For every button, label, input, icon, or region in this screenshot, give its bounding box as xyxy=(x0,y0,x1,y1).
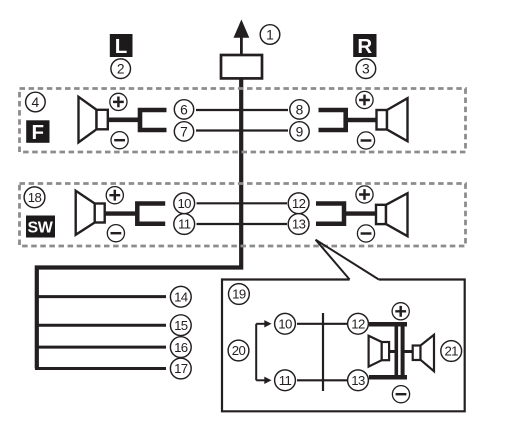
plus sw-left xyxy=(106,187,123,204)
node 1 xyxy=(260,25,280,45)
wire lead 16 xyxy=(35,346,166,349)
svg-text:7: 7 xyxy=(180,124,188,139)
node 15 xyxy=(170,315,191,336)
label R xyxy=(353,34,376,58)
node 7 xyxy=(174,122,193,141)
speaker subwoofer-left xyxy=(76,191,105,235)
plus sw-right xyxy=(356,186,373,203)
detail box xyxy=(222,280,465,412)
arrow bracket to 10 and 11 xyxy=(256,320,271,384)
node 10 xyxy=(174,193,195,214)
node 18 xyxy=(24,187,45,208)
wire 6 to 8 xyxy=(196,109,288,111)
speaker detail-left xyxy=(369,336,395,367)
node 11 detail xyxy=(275,370,296,391)
minus front-left xyxy=(111,132,128,149)
svg-text:18: 18 xyxy=(28,190,42,205)
wire 10-12 detail xyxy=(297,323,347,325)
wire lead 15 xyxy=(35,324,166,327)
node 17 xyxy=(170,358,191,379)
svg-text:12: 12 xyxy=(351,317,365,332)
svg-text:14: 14 xyxy=(174,290,188,305)
svg-text:11: 11 xyxy=(279,373,292,388)
wire sw-right speaker xyxy=(344,211,377,215)
wire fork front-left xyxy=(140,110,167,130)
svg-text:9: 9 xyxy=(296,124,304,139)
wire plus rail xyxy=(369,322,407,327)
wire 7 to 9 xyxy=(196,129,288,131)
svg-text:SW: SW xyxy=(28,220,54,237)
node 12 xyxy=(288,193,309,214)
node 19 xyxy=(229,284,250,305)
bar right xyxy=(401,324,405,379)
node 13 detail xyxy=(348,370,369,391)
node 21 xyxy=(441,341,462,362)
svg-text:10: 10 xyxy=(177,196,191,211)
svg-text:3: 3 xyxy=(362,62,370,77)
speaker front-right xyxy=(377,98,408,141)
dashed box SW xyxy=(20,184,466,247)
node 6 xyxy=(174,100,193,119)
svg-text:12: 12 xyxy=(292,196,306,211)
wire minus rail xyxy=(369,375,407,380)
svg-text:F: F xyxy=(32,121,45,144)
wire sw-left speaker xyxy=(105,211,138,215)
svg-text:6: 6 xyxy=(180,102,188,117)
node 9 xyxy=(290,122,309,141)
node 16 xyxy=(170,337,191,358)
callout lines xyxy=(316,240,379,280)
svg-text:21: 21 xyxy=(444,344,458,359)
svg-text:13: 13 xyxy=(351,373,365,388)
wire lead 14 xyxy=(35,295,166,298)
main harness wire xyxy=(37,78,241,369)
label SW xyxy=(26,216,55,238)
node 10 detail xyxy=(275,313,296,334)
wire fork sw-right xyxy=(316,204,344,224)
svg-text:2: 2 xyxy=(117,62,125,77)
antenna arrow xyxy=(234,20,250,56)
wire fork front-right xyxy=(319,110,346,130)
dashed box F xyxy=(20,89,466,153)
minus sw-right xyxy=(357,225,374,242)
wire 10 to 12 xyxy=(197,202,288,204)
label L xyxy=(110,34,133,58)
node 3 xyxy=(356,59,376,79)
svg-text:R: R xyxy=(357,35,372,58)
node 2 xyxy=(111,59,131,79)
node 8 xyxy=(290,100,309,119)
svg-text:13: 13 xyxy=(292,217,306,232)
wire fork sw-left xyxy=(137,204,165,224)
plus front-left xyxy=(110,93,127,110)
svg-text:16: 16 xyxy=(174,340,188,355)
speaker detail-right xyxy=(404,335,434,371)
node 4 xyxy=(26,92,46,112)
svg-text:19: 19 xyxy=(232,287,246,302)
speaker front-left xyxy=(79,97,108,143)
node 13 xyxy=(288,214,309,235)
junction crossbar xyxy=(322,313,324,391)
minus front-right xyxy=(357,132,374,149)
node 12 detail xyxy=(348,313,369,334)
svg-text:10: 10 xyxy=(278,317,292,332)
svg-text:L: L xyxy=(115,35,128,58)
svg-text:1: 1 xyxy=(266,27,274,42)
node 11 xyxy=(174,214,195,235)
plus detail xyxy=(392,303,409,320)
wire lead 17 xyxy=(35,367,166,370)
minus sw-left xyxy=(107,225,124,242)
wire 11-13 detail xyxy=(297,379,347,381)
svg-text:20: 20 xyxy=(232,343,246,358)
label F xyxy=(26,120,49,144)
bar left xyxy=(394,324,398,379)
svg-text:15: 15 xyxy=(174,318,188,333)
svg-text:11: 11 xyxy=(178,217,191,232)
node 14 xyxy=(170,286,191,307)
wire 11 to 13 xyxy=(197,223,288,225)
node 20 xyxy=(228,340,249,361)
svg-text:8: 8 xyxy=(296,102,304,117)
svg-text:17: 17 xyxy=(174,361,188,376)
wire front-right speaker xyxy=(346,118,377,123)
plus front-right xyxy=(356,91,373,108)
svg-text:4: 4 xyxy=(32,95,40,110)
connector plug xyxy=(221,55,262,78)
speaker subwoofer-right xyxy=(376,193,408,236)
minus detail xyxy=(392,386,409,403)
wire front-left speaker xyxy=(107,118,140,123)
